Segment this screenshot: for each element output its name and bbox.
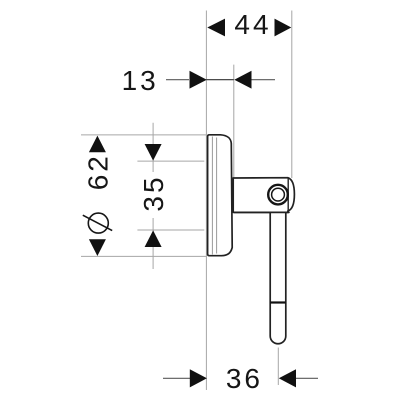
arm body	[233, 178, 294, 213]
rosette contour line 2	[216, 138, 218, 254]
dimension 36 leader right	[296, 377, 318, 379]
dimension 13 leader right	[252, 79, 276, 81]
dimension 13 line	[206, 79, 233, 81]
dimension 13 arrow left	[190, 71, 207, 89]
dimension 62 arrow down	[89, 239, 106, 256]
svg-text:62: 62	[83, 153, 114, 190]
dimension 35 arrow down	[145, 144, 162, 161]
dimension 36 leader left	[163, 377, 190, 379]
rod	[270, 213, 286, 344]
extension line V5 column 35	[152, 123, 154, 269]
extension line H1 62 top	[81, 134, 206, 136]
dimension 13 arrow right	[234, 71, 251, 89]
dimension 13 leader left	[166, 79, 189, 81]
dimension 35 arrow up	[145, 230, 162, 247]
extension line V1 wall	[205, 11, 207, 391]
dimension 35 label mask	[140, 172, 166, 218]
extension line V3 arm outer (44)	[291, 11, 293, 179]
svg-text:13: 13	[122, 65, 159, 96]
dimension 44 arrow left	[207, 19, 225, 37]
diameter symbol circle	[88, 213, 108, 233]
dimension 36 arrow right	[279, 369, 296, 387]
rosette contour line 1	[211, 137, 213, 255]
extension line V4 rod centre (36)	[277, 348, 279, 386]
dimension 44 arrow right	[275, 19, 292, 37]
extension line H2 62 bottom	[81, 255, 206, 257]
dimension 62 arrow up	[89, 136, 106, 153]
dimension 36 arrow left	[190, 369, 207, 387]
extension line H3 35 top	[137, 160, 204, 162]
extension line H4 35 bottom	[137, 229, 204, 231]
arm end-cap inner line	[287, 178, 289, 211]
svg-text:44: 44	[234, 9, 271, 40]
knob inner circle	[272, 188, 285, 201]
svg-text:36: 36	[226, 363, 263, 394]
rod joint tick	[270, 301, 286, 303]
diameter symbol slash	[83, 215, 112, 230]
extension line V2 rosette front (13)	[233, 65, 235, 213]
rosette escutcheon outline	[208, 135, 233, 256]
svg-text:35: 35	[138, 174, 169, 211]
arm bottom edge over rod joint	[234, 211, 289, 213]
knob outer circle	[268, 185, 288, 205]
